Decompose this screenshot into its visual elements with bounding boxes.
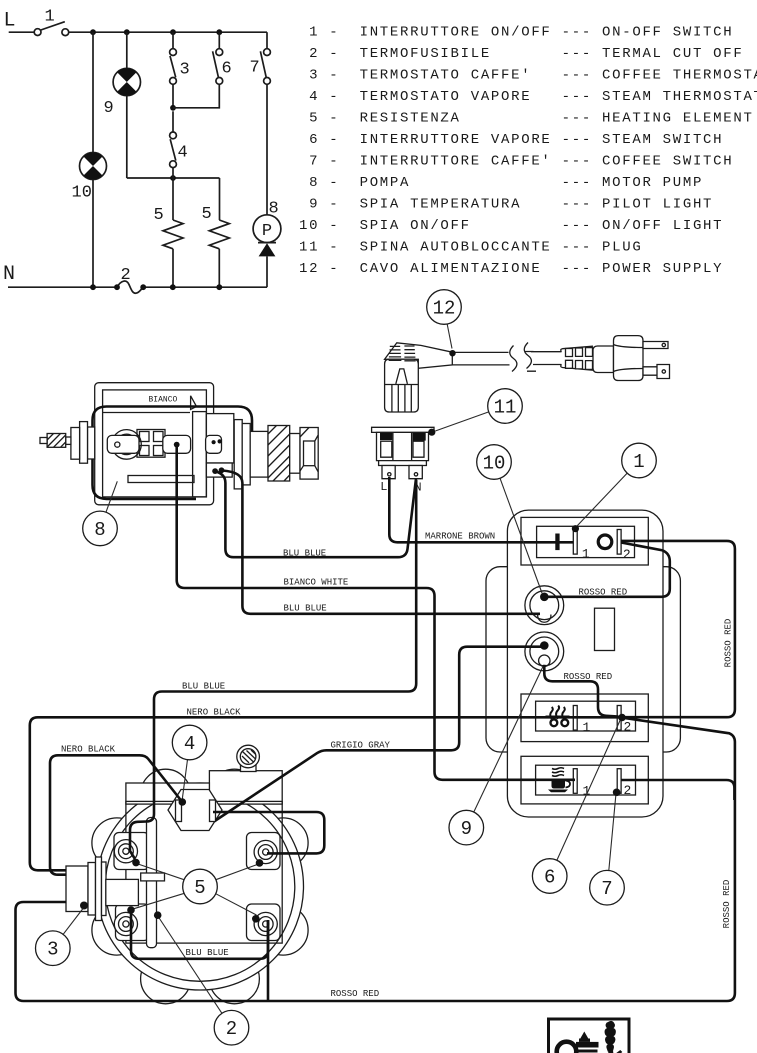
svg-text:9: 9 — [461, 818, 472, 840]
terminal post left-top — [114, 840, 137, 863]
thermostat clamp plate — [106, 879, 139, 905]
pump coil left bearing — [112, 430, 142, 460]
node dot at 173,178 — [170, 175, 176, 181]
lamp 10 (on/off light) — [72, 153, 107, 203]
contact bracket 2 — [617, 530, 621, 555]
svg-text:5: 5 — [154, 206, 164, 225]
svg-text:8: 8 — [269, 200, 279, 219]
switch 1 (on-off) — [34, 8, 69, 36]
steam icon — [550, 706, 565, 720]
callout circle 4 — [172, 725, 207, 760]
symbol I — [555, 534, 559, 551]
svg-text:GRIGIO GRAY: GRIGIO GRAY — [331, 741, 391, 751]
boiler element square — [126, 801, 282, 943]
node dot switch1 — [572, 525, 579, 532]
callout circle 8 — [83, 511, 118, 546]
pump solenoid frame — [193, 412, 207, 497]
terminal post right-bottom — [254, 912, 277, 935]
wire rosso red (boiler right post tap) — [267, 920, 270, 1001]
pump shelf — [128, 476, 194, 483]
wire blu blue (boiler post to inlet N) — [130, 480, 416, 859]
pump 8 (motor pump P) — [253, 200, 281, 288]
wire grigio gray (thermostat 4 pin to lamp 9) — [216, 647, 542, 821]
wire blu blue (pump to inlet N) — [216, 472, 417, 558]
switch 6 (steam switch) — [213, 32, 232, 84]
boiler bolt — [241, 764, 257, 772]
svg-text:5: 5 — [202, 205, 212, 224]
svg-text:P: P — [262, 222, 272, 241]
switch 4 (steam thermostat) — [170, 111, 188, 167]
svg-text:7 - INTERRUTTORE CAFFE' --- C: 7 - INTERRUTTORE CAFFE' --- COFFEE SWITC… — [299, 154, 733, 170]
plug prong bottom — [643, 365, 670, 379]
pump inlet stack — [88, 427, 95, 459]
svg-text:2: 2 — [226, 1018, 237, 1040]
callout circle 11 leader — [435, 412, 488, 431]
svg-text:8: 8 — [94, 519, 105, 541]
svg-text:MARRONE BROWN: MARRONE BROWN — [425, 532, 495, 542]
contact bracket 1 — [573, 530, 577, 555]
svg-text:1: 1 — [582, 547, 590, 562]
svg-text:4: 4 — [184, 733, 195, 755]
svg-text:2: 2 — [121, 266, 131, 285]
pump bobbin center — [137, 430, 165, 458]
wire sw7 to pump — [266, 84, 268, 214]
switch 3 (coffee thermostat) — [170, 32, 190, 84]
pump inlet barb hatched — [47, 434, 66, 448]
pump body outer — [95, 383, 214, 505]
svg-text:N: N — [3, 263, 15, 286]
lamp 9 pilot light — [525, 632, 564, 671]
callout circle 10 leader — [500, 478, 542, 593]
svg-text:ROSSO RED: ROSSO RED — [724, 619, 734, 668]
svg-text:BIANCO: BIANCO — [149, 396, 178, 405]
wire nero black (thermostat 3 to thermostat 4 pin) — [50, 755, 182, 874]
svg-text:1: 1 — [633, 451, 644, 473]
svg-text:2 - TERMOFUSIBILE --- T: 2 - TERMOFUSIBILE --- TERMAL CUT OFF — [299, 46, 743, 62]
terminal pad right-bottom — [247, 904, 281, 941]
callout circle 1 leader — [577, 473, 627, 526]
node junction dots on top bus — [90, 29, 96, 35]
callout circle 5 leaders to element posts — [134, 864, 259, 915]
svg-text:NERO BLACK: NERO BLACK — [187, 708, 242, 718]
svg-text:9: 9 — [104, 99, 114, 118]
wire rosso red (switch7 contact 2 to right vertical) — [621, 780, 734, 800]
pump terminal plate right (bianco terminal) — [163, 435, 191, 453]
svg-text:ROSSO RED: ROSSO RED — [564, 672, 613, 682]
wire marrone brown (inlet L to switch1 contact 1) — [389, 477, 573, 542]
node dot switch6 contact2 — [618, 714, 626, 722]
element terminal hexagon — [168, 790, 222, 831]
thermostat 3 assembly — [66, 857, 138, 921]
contact bracket 2 — [617, 706, 621, 731]
wire marrone brown (switch1 contact 2 to switch6 contact 2) — [621, 541, 735, 717]
resistor 5 left (heating element) — [163, 220, 183, 249]
svg-text:NERO BLACK: NERO BLACK — [61, 745, 116, 755]
svg-text:1: 1 — [583, 784, 591, 799]
callout circle 6 leader — [557, 721, 620, 861]
power cable with break symbol — [453, 343, 562, 372]
svg-text:ROSSO RED: ROSSO RED — [331, 989, 380, 999]
wire node to resistor 1 — [172, 168, 174, 220]
pump terminal dots lower — [212, 468, 218, 474]
callout circle 8 leader — [106, 481, 118, 513]
svg-text:10 - SPIA ON/OFF ---: 10 - SPIA ON/OFF --- ON/OFF LIGHT — [299, 218, 723, 234]
inlet connector 11 (spina autobloccante) — [372, 427, 436, 494]
hexagon pin right — [210, 800, 216, 822]
svg-text:10: 10 — [72, 184, 92, 203]
switch panel body — [507, 510, 663, 817]
panel middle slot — [595, 608, 615, 650]
callout circle 4 leader — [182, 760, 187, 799]
boiler inner circle — [105, 792, 295, 982]
wire rosso red (lamp 9 to switch 6 contact 2) — [544, 665, 618, 717]
pump terminal tab upper — [206, 435, 222, 453]
callout circle 5 — [183, 869, 218, 904]
svg-text:BLU BLUE: BLU BLUE — [186, 948, 229, 958]
svg-text:12 - CAVO ALIMENTAZIONE ---: 12 - CAVO ALIMENTAZIONE --- POWER SUPPLY — [299, 261, 723, 277]
wire rosso red (switch6 contact 2 down right side to boiler) — [16, 718, 735, 1001]
wire bottom N bus — [8, 286, 267, 288]
svg-text:7: 7 — [601, 878, 612, 900]
svg-text:3: 3 — [47, 939, 58, 961]
pump outlet shaft — [250, 431, 268, 477]
callout circle 10 — [477, 445, 512, 480]
fuse strap — [147, 818, 157, 948]
symbol O — [598, 535, 612, 549]
pump outlet end nut — [300, 428, 318, 480]
power cord 12: angled appliance plug body — [385, 343, 453, 412]
lamp 10 on/off light — [525, 586, 564, 625]
callout circle 3 leader — [63, 909, 83, 935]
callout circle 11 — [488, 389, 523, 424]
pump outlet nut hatched — [268, 426, 290, 482]
switch 7 (coffee switch) — [250, 32, 271, 84]
svg-text:4 - TERMOSTATO VAPORE --- S: 4 - TERMOSTATO VAPORE --- STEAM THERMOST… — [299, 89, 757, 105]
svg-text:3 - TERMOSTATO CAFFE' --- C: 3 - TERMOSTATO CAFFE' --- COFFEE THERMOS… — [299, 68, 757, 84]
svg-text:10: 10 — [483, 453, 506, 475]
svg-text:12: 12 — [433, 298, 456, 320]
wire left column x=93 — [92, 32, 94, 287]
plug prong top — [643, 342, 668, 349]
terminal post right-top — [254, 840, 277, 863]
svg-text:ROSSO RED: ROSSO RED — [579, 588, 628, 598]
callout circle 12 leader — [447, 324, 452, 348]
switch 7 rocker (coffee) — [521, 756, 648, 804]
pump terminal plate left — [107, 435, 139, 453]
pump flag mark — [191, 396, 197, 410]
callout circle 7 — [590, 870, 625, 905]
node dot inlet attach — [428, 429, 435, 436]
svg-text:11: 11 — [494, 397, 517, 419]
node dot switch7 contact2 — [613, 789, 621, 797]
pump outlet spacer — [290, 434, 300, 474]
wire element jumper (hexagon pin to right-top post) — [213, 812, 324, 853]
wire horizontal y=178 — [127, 177, 220, 179]
svg-text:6: 6 — [222, 60, 232, 79]
callout circle 2 — [214, 1010, 249, 1045]
svg-text:6 - INTERRUTTORE VAPORE --- S: 6 - INTERRUTTORE VAPORE --- STEAM SWITCH — [299, 132, 723, 148]
fuse 2 (thermal cut-off) — [117, 281, 143, 293]
node dot hexagon left pin — [179, 798, 187, 806]
wire lamp9 column x=127 — [126, 32, 128, 178]
callout circle 6 — [532, 859, 567, 894]
svg-text:3: 3 — [180, 61, 190, 80]
svg-text:11 - SPINA AUTOBLOCCANTE ---: 11 - SPINA AUTOBLOCCANTE --- PLUG — [299, 240, 642, 256]
callout circle 2 leader — [159, 918, 222, 1014]
boiler outer circle — [97, 783, 304, 990]
svg-text:5: 5 — [194, 877, 205, 899]
wire blu blue (pump to lamp 10) — [223, 471, 541, 614]
svg-text:L: L — [4, 10, 16, 33]
node dots on bottom bus — [90, 284, 96, 290]
node dot cord attach — [449, 350, 455, 356]
svg-text:4: 4 — [178, 144, 188, 163]
cord strain relief — [561, 346, 593, 370]
svg-text:1: 1 — [45, 8, 55, 27]
bottom icon box — [549, 1019, 630, 1053]
wire L lead-in — [9, 31, 34, 33]
node dots on boiler posts — [132, 859, 140, 867]
pump 8 assembly — [40, 383, 318, 505]
switch 6 rocker (steam) — [521, 694, 648, 742]
callout circle 12 — [427, 290, 462, 325]
wire bianco white (pump to switch 7 contact 1) — [177, 446, 575, 780]
svg-text:1: 1 — [583, 720, 591, 735]
svg-text:BLU BLUE: BLU BLUE — [182, 682, 225, 692]
terminal pad left-top — [114, 833, 149, 870]
pump valve block — [206, 414, 233, 463]
svg-text:2: 2 — [623, 547, 631, 562]
svg-text:8 - POMPA --- M: 8 - POMPA --- MOTOR PUMP — [299, 175, 703, 191]
svg-text:L: L — [380, 480, 387, 494]
svg-text:2: 2 — [624, 720, 632, 735]
switch panel mounting plate — [486, 567, 680, 752]
callout circle 3 — [36, 931, 71, 966]
callout circle 9 — [449, 810, 484, 845]
svg-text:7: 7 — [250, 59, 260, 78]
svg-text:BLU BLUE: BLU BLUE — [283, 549, 326, 559]
pump wire loop — [93, 407, 253, 499]
svg-text:ROSSO RED: ROSSO RED — [722, 880, 732, 929]
svg-text:BLU BLUE: BLU BLUE — [284, 604, 327, 614]
resistor 5 right (heating element) — [219, 178, 221, 220]
cord spring ribs — [389, 346, 402, 360]
contact bracket 1 — [573, 769, 577, 794]
wire top bus — [69, 31, 267, 33]
wire rosso red (switch1 contact 2 to lamp 10) — [547, 543, 670, 597]
terminal pad left-bottom — [116, 904, 150, 941]
terminal post left-bottom — [114, 912, 137, 935]
wire horizontal y=108 to switch 6 — [173, 84, 219, 107]
callout circle 7 leader — [609, 796, 616, 871]
svg-text:5 - RESISTENZA --- H: 5 - RESISTENZA --- HEATING ELEMENT — [299, 111, 754, 127]
coffee cup icon — [552, 768, 564, 777]
callout circle 1 — [622, 443, 657, 478]
wire nero black (thermostat 3 to switch 6 contact 2) — [30, 717, 621, 870]
svg-text:9 - SPIA TEMPERATURA --- P: 9 - SPIA TEMPERATURA --- PILOT LIGHT — [299, 197, 713, 213]
mains plug 12 body — [593, 336, 670, 381]
wire sw3 to node — [172, 84, 174, 107]
boiler petals — [92, 769, 308, 1004]
hexagon pin left (thermostat 4 terminal) — [176, 800, 182, 822]
contact bracket 2 — [617, 769, 621, 794]
svg-text:6: 6 — [544, 867, 555, 889]
svg-text:BIANCO WHITE: BIANCO WHITE — [284, 578, 349, 588]
pump outlet plates — [234, 420, 242, 489]
boiler assembly (element 5, thermostats 3/4, fuse 2) — [92, 745, 308, 1004]
wire blu blue (element posts U loop) — [131, 910, 268, 959]
boiler top plates — [209, 771, 282, 804]
LEGEND — [299, 25, 757, 278]
switch 1 rocker (on-off) — [521, 517, 648, 565]
SCHEMATIC_TOP_LEFT — [3, 8, 281, 294]
callout circle 9 leader — [474, 667, 543, 813]
contact bracket 1 — [573, 706, 577, 731]
pump body inner — [103, 390, 207, 497]
svg-text:1 - INTERRUTTORE ON/OFF --- O: 1 - INTERRUTTORE ON/OFF --- ON-OFF SWITC… — [299, 25, 733, 41]
terminal pad right-top — [247, 833, 281, 870]
svg-text:2: 2 — [624, 783, 632, 798]
lamp 9 (pilot light) — [104, 68, 141, 118]
